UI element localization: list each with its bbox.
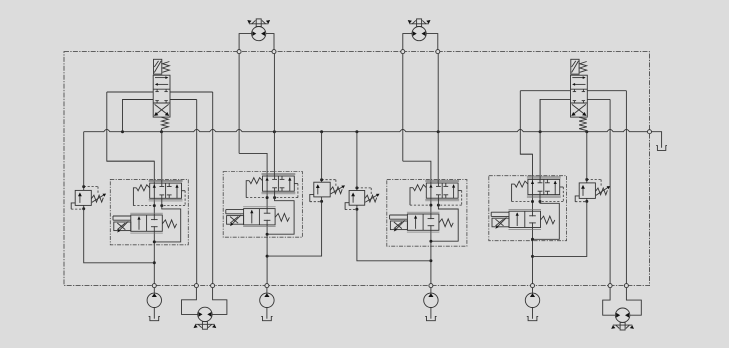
junction bus dot 3 — [273, 130, 276, 133]
relief valve RV4 inlet node — [585, 178, 588, 181]
valve section 4 directional valve — [527, 176, 561, 178]
wire port P2 to section 2 — [273, 54, 275, 177]
port T3 — [429, 284, 433, 288]
wire section 3 bypass loop — [431, 205, 458, 241]
wire bus to RV4 — [586, 132, 588, 180]
port A4 — [608, 284, 612, 288]
wire line to port A1 — [196, 100, 198, 284]
wire M1 left leg — [239, 34, 252, 50]
junction section 1 node c — [153, 240, 156, 243]
wire section 4 tank line — [539, 195, 541, 202]
wire PV1 feed to section 1 — [107, 92, 155, 161]
wire port P3 to section 3 feed — [402, 54, 404, 162]
port B4 — [624, 284, 628, 288]
wire bus to RV3 — [356, 132, 358, 188]
pump G4 — [532, 288, 534, 294]
junction bus dot 1 — [121, 130, 124, 133]
junction bus dot 2 — [160, 130, 163, 133]
junction bus dot 4 — [320, 130, 323, 133]
valve section 3 compensator — [407, 211, 440, 213]
port P3a — [401, 50, 405, 54]
port T4 — [531, 284, 535, 288]
pump G1 — [153, 288, 155, 294]
wire PV2 feed to section 4 — [520, 91, 532, 155]
wire bus to RV1 — [83, 132, 85, 187]
wire section 2 bypass loop — [267, 198, 294, 235]
valve block enclosure (dashed) — [64, 52, 650, 286]
junction section 2 node c — [266, 233, 269, 236]
wire section 3 top valve pilot left — [410, 188, 413, 205]
wire M3 left leg — [182, 288, 198, 315]
wire section 4 feed — [520, 154, 532, 284]
spring section 2 top valve — [249, 178, 262, 184]
spring section 3 compensator — [439, 219, 453, 227]
section 3 boundary (dashed) — [387, 180, 467, 247]
port P1 — [237, 50, 241, 54]
wire section 2 feed — [239, 153, 267, 283]
solenoid section 4 compensator pilot — [491, 211, 509, 213]
wire line to port A4 — [609, 99, 611, 283]
port T2 — [265, 284, 269, 288]
wire tank line section 1 from bus — [161, 132, 163, 183]
pump G3 — [430, 288, 432, 294]
solenoid section 3 compensator pilot — [390, 214, 408, 216]
wire section 1 tank line — [161, 198, 163, 205]
port PP right — [648, 130, 652, 134]
wire section 2 tank line — [274, 191, 276, 197]
junction section 2 node a — [266, 196, 269, 199]
junction section 3 node d — [429, 259, 432, 262]
junction section 3 node b — [437, 204, 440, 207]
wire section 2 top valve pilot right — [294, 183, 298, 185]
spring section 4 top valve — [515, 181, 528, 187]
wire section 2 top valve pilot left — [246, 181, 249, 198]
section 1 boundary (dashed) — [110, 179, 188, 244]
wire section 3 compensator gap — [430, 219, 432, 225]
junction section 4 node b — [539, 200, 542, 203]
wire M3 right leg — [212, 288, 227, 315]
wire port PP to tank — [651, 132, 661, 148]
port T1 — [152, 284, 156, 288]
valve section 2 compensator — [243, 206, 276, 208]
wire section 3 top valve pilot right — [458, 190, 462, 192]
wire RV3 drain — [357, 209, 431, 260]
pump G2 — [266, 288, 268, 294]
junction section 1 node d — [153, 261, 156, 264]
relief valve RV2 — [314, 182, 330, 197]
motor M3 — [198, 307, 212, 321]
port B1 — [211, 284, 215, 288]
junction section 4 node d — [531, 255, 534, 258]
wire PV2 left upper — [520, 90, 570, 92]
relief valve RV4 — [579, 183, 595, 199]
relief valve RV2 outlet node — [320, 200, 323, 203]
wire main bus — [84, 129, 648, 131]
wire line to port B1 — [212, 92, 214, 284]
wire section 1 top valve pilot left — [133, 188, 136, 206]
wire RV1 drain — [84, 209, 155, 263]
wire section 1 compensator gap — [153, 220, 155, 226]
valve section 4 compensator — [509, 208, 542, 210]
valve section 2 directional valve — [262, 172, 296, 174]
wire PV2 right lower — [587, 98, 610, 100]
wire section 1 feed — [107, 161, 155, 284]
junction bus dot 5 — [355, 130, 358, 133]
wire section 4 bypass loop — [533, 202, 560, 240]
wire section 3 feed — [403, 161, 431, 284]
junction bus dot 7 — [539, 130, 542, 133]
wire port P1 to section 2 feed — [238, 54, 240, 154]
wire M2 right leg — [426, 34, 438, 50]
section 2 boundary (dashed) — [223, 172, 302, 238]
wire section 1 top valve pilot right — [182, 190, 186, 192]
junction bus dot 8 — [585, 130, 588, 133]
wire section 3 tank line — [437, 198, 439, 205]
junction section 1 node b — [160, 204, 163, 207]
solenoid section 1 compensator pilot — [113, 215, 131, 217]
junction section 3 node a — [429, 204, 432, 207]
wire PV2 right upper — [587, 90, 626, 92]
section 4 boundary (dashed) — [489, 176, 567, 241]
wire PV1 right upper — [170, 91, 213, 93]
motor M1 — [252, 26, 266, 40]
wire PV1 left lower — [123, 100, 154, 132]
port P4a — [436, 50, 440, 54]
motor M4 — [615, 308, 629, 322]
wire M1 right leg — [266, 34, 274, 50]
solenoid section 2 compensator pilot — [226, 209, 244, 211]
motor M2 — [412, 26, 426, 40]
port A1 — [194, 284, 198, 288]
valve section 3 directional valve — [425, 179, 459, 181]
relief valve RV1 inlet node — [82, 185, 85, 188]
wire M4 left leg — [603, 288, 616, 316]
pressure valve PV1 — [154, 59, 162, 74]
junction section 4 node c — [531, 238, 534, 241]
spring section 4 compensator — [541, 216, 555, 224]
relief valve RV3 — [349, 191, 365, 206]
junction bus dot 6 — [437, 130, 440, 133]
junction section 1 node a — [153, 204, 156, 207]
junction section 4 node a — [531, 200, 534, 203]
wire RV4 drain — [533, 201, 587, 256]
wire PV1 right lower — [170, 99, 197, 101]
wire section 4 compensator gap — [531, 216, 533, 222]
wire section 4 top valve pilot right — [560, 186, 564, 188]
relief valve RV2 inlet node — [320, 178, 323, 181]
spring section 1 top valve — [136, 185, 149, 191]
relief valve RV4 outlet node — [585, 200, 588, 203]
wire line to port B4 — [625, 91, 627, 284]
wire bus to RV2 — [321, 132, 323, 180]
wire M4 right leg — [626, 288, 641, 316]
wire RV2 drain — [267, 201, 322, 256]
wire M2 left leg — [403, 34, 412, 50]
wire PV2 left lower — [540, 99, 570, 131]
relief valve RV3 inlet node — [355, 186, 358, 189]
tank T right — [656, 146, 667, 151]
spring section 2 compensator — [275, 214, 289, 222]
relief valve RV1 outlet node — [82, 207, 85, 210]
wire section 1 bypass loop — [154, 206, 180, 242]
wire port P3 to section 3 — [437, 54, 439, 184]
junction section 2 node d — [266, 255, 269, 258]
wire PV2 to section 4 — [539, 99, 541, 179]
spring section 1 compensator — [162, 220, 176, 228]
spring section 3 top valve — [413, 185, 426, 191]
relief valve RV3 outlet node — [355, 208, 358, 211]
relief valve RV1 — [75, 190, 91, 205]
wire section 2 compensator gap — [266, 214, 268, 220]
pressure valve PV2 — [571, 59, 579, 74]
wire PV1 left upper — [107, 91, 153, 93]
wire section 4 top valve pilot left — [512, 184, 515, 201]
valve section 1 compensator — [130, 212, 163, 214]
port P2a — [272, 50, 276, 54]
junction section 2 node b — [273, 196, 276, 199]
valve section 1 directional valve — [149, 180, 183, 182]
junction section 3 node c — [429, 240, 432, 243]
